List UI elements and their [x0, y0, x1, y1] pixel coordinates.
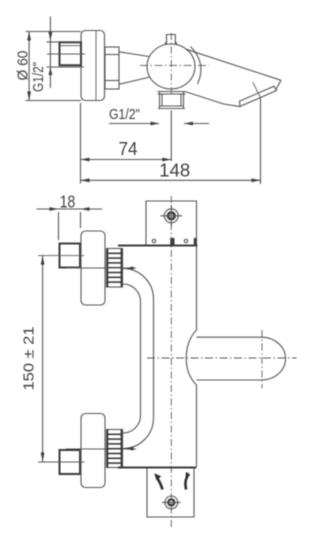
bottom flange [81, 414, 105, 488]
body right edge with handle bulge [186, 246, 196, 467]
eccentric union square G1/2 (side view) [60, 42, 82, 65]
bottom bend outer [123, 418, 154, 449]
top bend inner [123, 284, 141, 302]
bottom plate screw target [165, 496, 178, 509]
handle right cap [262, 337, 286, 380]
pipe wall left [140, 302, 142, 416]
spout top edge [186, 49, 281, 80]
svg-text:G1/2": G1/2" [109, 106, 140, 123]
top wall-union centerline [38, 255, 84, 257]
horizontal centerline through body [140, 64, 209, 66]
dimension 150 ± 21 [42, 256, 44, 462]
dimension Ø60 [26, 31, 82, 33]
down pipe (side view) [158, 91, 186, 93]
spout collar arc [191, 47, 201, 85]
G1/2 arrow left [109, 123, 159, 125]
plate fixing marks [152, 239, 155, 242]
bottom bend inner [123, 416, 141, 434]
wall flange (side view) [81, 31, 105, 101]
handle horizontal centerline [147, 357, 297, 359]
handle vertical centerline [261, 330, 263, 389]
hex nut (side view) [105, 47, 119, 89]
handle bottom edge [197, 379, 262, 381]
control knob sphere (side view) [147, 44, 195, 89]
bottom inlet centerline + flow arrow [66, 448, 136, 450]
pipe wall right [153, 299, 155, 418]
body bottom thick edge [118, 467, 197, 469]
svg-text:Ø 60: Ø 60 [15, 51, 32, 81]
bottom wall-union centerline [38, 461, 84, 463]
top bend outer [123, 269, 154, 300]
rotation arrow right [185, 474, 188, 489]
spout end face [276, 80, 281, 90]
vertical body centerline [170, 196, 172, 528]
dimension G1/2 (left rotated) [49, 17, 51, 89]
spout bottom edge [185, 92, 240, 107]
top plate screw target [164, 209, 178, 223]
aerator [240, 86, 277, 106]
inlet centerline (side view) [47, 53, 85, 55]
bottom knurled ring [107, 430, 123, 468]
body cone (side view) [119, 52, 149, 57]
top mounting plate [146, 201, 197, 245]
vertical centerline through knob [170, 33, 172, 97]
bottom connection square G1/2 [60, 450, 81, 474]
extension tick across aerator [253, 82, 260, 97]
temperature adjust knob (side view) [167, 35, 176, 45]
bottom mounting plate [147, 469, 194, 518]
rotation arrow left [158, 479, 163, 490]
top knurled ring [107, 249, 123, 288]
dimension 148 [260, 97, 262, 184]
svg-text:150 ± 21: 150 ± 21 [21, 327, 38, 391]
body top thick edge [118, 245, 198, 247]
svg-text:148: 148 [159, 161, 190, 181]
svg-text:74: 74 [119, 139, 138, 159]
top flange [81, 231, 105, 305]
top inlet centerline + flow arrow [66, 267, 136, 269]
G1/2 arrow right [184, 123, 209, 125]
handle top edge [197, 336, 262, 338]
svg-text:G1/2": G1/2" [30, 62, 47, 92]
dimension 74 [80, 103, 82, 184]
top connection square G1/2 [60, 244, 81, 268]
